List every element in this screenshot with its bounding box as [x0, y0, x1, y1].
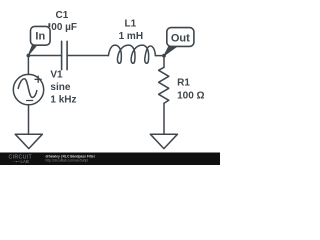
- svg-text:L1: L1: [125, 19, 137, 30]
- svg-text:V1: V1: [50, 70, 63, 81]
- node junction dot left: [27, 54, 31, 58]
- svg-text:C1: C1: [56, 10, 69, 21]
- footer text: [46, 155, 96, 163]
- svg-text:sine: sine: [50, 82, 70, 93]
- footer bar: [0, 153, 220, 166]
- flag Out: [164, 28, 194, 56]
- svg-text:R1: R1: [177, 78, 190, 89]
- ground left: [15, 134, 42, 148]
- svg-text:Out: Out: [171, 33, 190, 45]
- wire V1 to ground: [28, 105, 30, 134]
- svg-text:1 mH: 1 mH: [119, 31, 143, 42]
- wire out node down to R1: [163, 56, 165, 68]
- svg-text:−▪−LAB: −▪−LAB: [14, 159, 30, 164]
- wire cap to inductor: [67, 55, 108, 57]
- capacitor C1: [62, 41, 68, 69]
- svg-text:100 Ω: 100 Ω: [177, 91, 204, 102]
- V1 plus sign: [35, 76, 41, 82]
- V1 sine wave: [18, 79, 37, 98]
- V1 minus sign: [27, 100, 33, 102]
- inductor L1: [108, 45, 155, 63]
- footer logo CIRCUIT LAB: [9, 155, 33, 165]
- wire left rail down to V1: [27, 56, 29, 75]
- source V1 circle: [13, 74, 43, 104]
- wire inductor to out node: [155, 55, 164, 57]
- node junction dot right: [162, 54, 166, 58]
- label 100 uF hidden digit 1 stem tip: [48, 23, 50, 27]
- svg-text:00 µF: 00 µF: [51, 22, 77, 33]
- flag In: [28, 26, 50, 55]
- svg-text:1 kHz: 1 kHz: [50, 95, 76, 106]
- ground right: [150, 134, 177, 148]
- wire top-left segment: [28, 55, 61, 57]
- svg-text:In: In: [35, 31, 45, 43]
- wire R1 to ground: [163, 103, 165, 134]
- component value labels: [48, 10, 204, 106]
- svg-text:http://circuitlab.com/cev5ubj3: http://circuitlab.com/cev5ubj3: [46, 159, 89, 163]
- resistor R1: [159, 67, 169, 103]
